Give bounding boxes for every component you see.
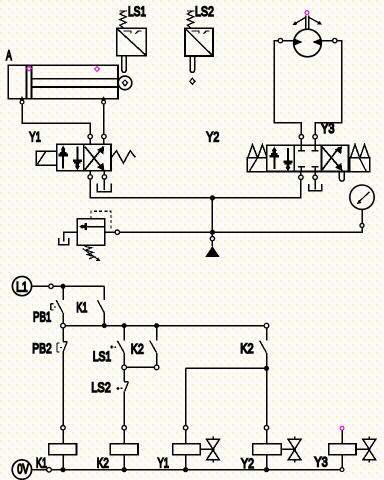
wire rail 2	[65, 325, 264, 327]
roller on rod end	[118, 76, 132, 90]
wire to tank	[103, 179, 105, 190]
valve Y2Y3 right square crossed arrows	[322, 146, 342, 171]
node P junction	[210, 195, 215, 200]
wire supply stub	[211, 235, 213, 247]
coil K2	[110, 444, 138, 455]
node rail2 LS1 branch	[122, 323, 127, 328]
solenoid Y1	[36, 151, 56, 165]
node rail3 left	[122, 365, 127, 370]
wire pressure line P	[90, 179, 301, 198]
svg-text:Y1: Y1	[158, 455, 170, 471]
node cylinder port left	[20, 100, 24, 104]
svg-text:K2: K2	[131, 341, 144, 357]
solenoid Y3 with spring (right end)	[350, 145, 370, 172]
svg-text:K2: K2	[240, 340, 254, 356]
tank under Y2Y3	[309, 184, 322, 191]
wire rail 1	[32, 285, 105, 287]
wire down to Y1 coil	[185, 368, 187, 425]
valve Y1 body	[57, 144, 111, 171]
limit switch LS2	[185, 11, 213, 73]
svg-text:K1: K1	[76, 299, 87, 315]
cylinder port arrow left	[20, 96, 25, 100]
node rail0 Y3 end	[340, 468, 344, 472]
node K2 coil terminal	[122, 426, 126, 430]
node relief valve port	[115, 230, 119, 234]
solenoid valve symbol Y1	[200, 436, 219, 462]
node rail3 right	[154, 365, 159, 370]
relay contact K1 (NO)	[98, 286, 105, 325]
svg-text:Y3: Y3	[321, 120, 335, 136]
wire motor right to valve	[315, 41, 342, 135]
svg-text:Y1: Y1	[29, 128, 41, 144]
spring Y1 (right end)	[111, 151, 135, 163]
wire Y1 bottom stubs	[90, 171, 104, 175]
coil Y1	[173, 444, 201, 455]
node rail2 K1	[102, 323, 107, 328]
node rail1 PB1 branch	[61, 284, 66, 289]
wire coils to bottom rail	[63, 455, 342, 470]
wire supply line	[120, 227, 362, 232]
tank under Y1	[97, 183, 111, 191]
node Y1 coil terminal	[183, 426, 187, 430]
solenoid valve symbol Y3	[356, 436, 376, 462]
limit switch LS1	[117, 11, 147, 72]
node cylinder port right	[102, 100, 106, 104]
node Y2 coil terminal	[264, 426, 268, 430]
valve Y1 left square arrows	[59, 146, 82, 171]
node rail0 left	[47, 467, 52, 472]
node Y feed junction	[264, 366, 269, 371]
svg-text:L1: L1	[16, 278, 28, 294]
svg-text:Y3: Y3	[314, 454, 328, 470]
node rail1	[49, 284, 53, 288]
relay contact K2 right (NO)	[260, 328, 267, 368]
marker diamond 2	[95, 67, 100, 72]
wire Y1 feed	[186, 367, 267, 369]
terminal L1	[12, 277, 31, 296]
node K1 coil terminal	[61, 426, 65, 430]
wire rail 3	[124, 366, 156, 368]
limit switch contact LS2 (NC)	[116, 370, 128, 426]
node supply port	[210, 237, 214, 241]
wire cylinder right to valve Y1	[103, 104, 105, 134]
valve Y1 right square crossed arrows	[85, 146, 104, 171]
svg-text:Y2: Y2	[241, 455, 254, 471]
coil Y3	[329, 444, 356, 455]
wire cylinder left to valve Y1	[22, 104, 90, 134]
node rail2 left	[61, 323, 66, 328]
node rail0 K1	[60, 467, 65, 472]
svg-text:0V: 0V	[17, 461, 29, 477]
wire to tank	[314, 180, 316, 190]
svg-text:K2: K2	[97, 455, 109, 471]
node rail2 K2 branch	[154, 323, 159, 328]
limit switch contact LS1 (NO)	[110, 326, 124, 366]
node Y3 coil terminal (open)	[340, 426, 344, 430]
svg-text:LS1: LS1	[93, 348, 112, 364]
solenoid Y2 with spring (left end)	[247, 145, 267, 172]
supply source triangle	[205, 246, 219, 257]
coil Y2	[253, 444, 282, 455]
wire gauge stub	[361, 209, 363, 223]
pressure gauge PG	[350, 185, 374, 209]
marker diamond 1	[27, 66, 32, 71]
node valve Y1 bottom port T	[102, 175, 106, 179]
wire valve bottom stubs	[301, 172, 315, 176]
svg-text:LS2: LS2	[195, 3, 214, 19]
wire P to supply	[211, 198, 213, 232]
wire relief stub	[105, 231, 115, 233]
node motor shaft marker (open)	[305, 11, 309, 15]
node motor port right	[333, 38, 337, 42]
svg-text:PB1: PB1	[33, 309, 51, 325]
node rail0 Y2	[264, 467, 269, 472]
wire motor left to valve	[274, 41, 301, 135]
node valve Y2Y3 bottom port P	[299, 175, 303, 179]
terminal 0V	[12, 460, 31, 479]
node valve Y2Y3 bottom port T	[313, 175, 317, 179]
pushbutton PB1 (NO)	[51, 286, 63, 323]
svg-text:A: A	[6, 47, 12, 63]
cylinder A body	[8, 65, 118, 98]
valve Y2Y3 center square blocked ports	[298, 145, 319, 171]
svg-text:Y2: Y2	[206, 129, 219, 145]
wire terminals to coils	[63, 430, 342, 444]
plug port (U)	[339, 172, 344, 181]
wire port stubs	[301, 139, 315, 146]
coil K1	[49, 444, 77, 455]
svg-text:K1: K1	[36, 455, 47, 471]
node rail0 K2	[122, 467, 127, 472]
node gauge port	[360, 223, 364, 227]
valve Y2Y3 left square arrows	[270, 147, 293, 172]
node valve Y2Y3 top port B	[313, 135, 317, 139]
relay contact K2 left (NO)	[150, 326, 157, 366]
node valve Y1 bottom port P	[88, 175, 92, 179]
wire Y1 top stubs	[90, 139, 104, 145]
svg-text:LS1: LS1	[128, 3, 146, 19]
wire bottom rail 0V	[32, 469, 340, 471]
node valve Y2Y3 top port A	[299, 135, 303, 139]
node valve Y1 top port A	[88, 134, 92, 138]
node rail0 Y1	[183, 467, 188, 472]
pushbutton PB2 (NC)	[57, 328, 67, 426]
svg-text:PB2: PB2	[32, 340, 52, 356]
node valve Y1 top port B	[102, 134, 106, 138]
marker diamond LS2	[190, 78, 195, 84]
solenoid valve symbol Y2	[281, 436, 301, 462]
motor M1	[292, 16, 322, 57]
relief valve RV1	[59, 211, 111, 261]
node motor port left	[278, 38, 282, 42]
node rail2 right end	[264, 323, 269, 328]
cylinder port arrow right	[101, 96, 106, 100]
svg-text:LS2: LS2	[91, 379, 111, 395]
valve Y2Y3 body	[267, 145, 349, 171]
wire down to Y2 coil	[266, 368, 268, 425]
node supply junction	[210, 230, 215, 235]
